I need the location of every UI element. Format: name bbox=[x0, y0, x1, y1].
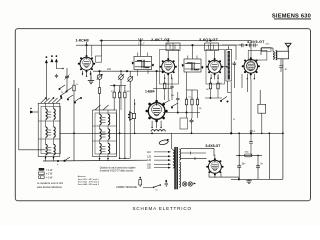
tube table bbox=[78, 175, 100, 186]
svg-text:50: 50 bbox=[98, 75, 100, 77]
detector switch bbox=[163, 78, 178, 108]
volume pot shield bar bbox=[223, 46, 232, 93]
ant coupling cap bbox=[279, 59, 283, 72]
IF screen cap bbox=[170, 78, 173, 95]
AF diode caps bbox=[233, 45, 243, 88]
coupling cap bbox=[190, 118, 194, 133]
dial lamp L1 bbox=[183, 182, 187, 186]
svg-text:10: 10 bbox=[76, 84, 78, 86]
schematic frame bbox=[15, 29, 310, 201]
voltage selector bbox=[147, 151, 152, 170]
ground terminal M bbox=[55, 55, 64, 69]
antenna terminal T bbox=[50, 55, 53, 62]
legend row 3 bbox=[39, 176, 53, 180]
padder wire bbox=[129, 88, 131, 158]
padder trimmer bbox=[127, 71, 133, 88]
band switch contacts bbox=[59, 85, 82, 103]
svg-text:25: 25 bbox=[61, 92, 63, 94]
svg-text:102: 102 bbox=[107, 68, 112, 71]
IF1 lead stubs bbox=[138, 70, 149, 76]
terminal box V4 bbox=[262, 43, 271, 51]
trimmer C osc bbox=[65, 68, 70, 91]
left inner vertical wire bbox=[19, 88, 46, 150]
svg-text:61: 61 bbox=[156, 190, 158, 192]
mains connector bbox=[165, 180, 169, 187]
speaker feed wire bbox=[134, 99, 136, 134]
speaker bbox=[128, 112, 136, 121]
junction node + bbox=[57, 160, 59, 166]
legend row 2 bbox=[39, 172, 53, 176]
left coil bank bbox=[38, 103, 60, 161]
svg-text:1-EB4: 1-EB4 bbox=[145, 90, 155, 94]
IF cathode resistor bbox=[164, 78, 166, 95]
heater wires bbox=[181, 148, 214, 160]
right vertical bus bbox=[282, 64, 284, 179]
power transformer bbox=[173, 147, 181, 189]
mains switch bbox=[143, 184, 161, 191]
resistor R osc bbox=[73, 80, 75, 161]
bus ground bbox=[246, 179, 252, 183]
ground bus y161 bbox=[43, 159, 147, 162]
output tube V4 bbox=[242, 57, 260, 79]
antenna terminal A bbox=[45, 56, 48, 100]
svg-text:220: 220 bbox=[147, 167, 152, 170]
bus junction dots bbox=[73, 132, 284, 134]
IF tube V2 bbox=[160, 51, 177, 80]
IF bypass caps bbox=[176, 92, 179, 113]
coupling box bbox=[180, 118, 188, 129]
svg-text:0.1: 0.1 bbox=[111, 91, 113, 93]
phono terminal arrow bbox=[30, 108, 38, 114]
rectifier output bbox=[209, 174, 240, 181]
value labels bbox=[61, 68, 288, 154]
AF line wire bbox=[153, 88, 172, 90]
title underline bbox=[274, 18, 311, 20]
band switch left bbox=[41, 97, 63, 103]
lamp arrow bbox=[194, 183, 197, 185]
svg-text:SCHEMA ELETTRICO: SCHEMA ELETTRICO bbox=[133, 206, 192, 211]
oscillator coil bank bbox=[93, 110, 117, 161]
det switch bbox=[220, 97, 228, 103]
svg-text:300: 300 bbox=[127, 91, 130, 93]
osc trimmer 2 bbox=[118, 70, 124, 88]
screen bypass bbox=[258, 90, 269, 179]
phono motor bbox=[159, 139, 169, 146]
V1 grid2 wire bbox=[91, 45, 93, 56]
svg-text:125: 125 bbox=[147, 155, 152, 158]
detector tube V3 bbox=[206, 51, 223, 80]
detector R chain bbox=[185, 72, 198, 118]
svg-text:110: 110 bbox=[147, 151, 151, 154]
svg-text:la valvola 3-6Q7-GT dallo zocc: la valvola 3-6Q7-GT dallo zoccolo bbox=[100, 171, 134, 173]
svg-text:160: 160 bbox=[147, 163, 152, 166]
legend row 1 bbox=[39, 168, 53, 172]
antenna bbox=[285, 43, 291, 51]
svg-text:0.1: 0.1 bbox=[220, 83, 222, 85]
dial lamp L2 bbox=[188, 182, 192, 186]
AVC resistor chain bbox=[110, 86, 130, 160]
svg-text:5-6X5-GT: 5-6X5-GT bbox=[206, 144, 222, 148]
bus switch bbox=[64, 157, 70, 162]
transformer feed wires bbox=[172, 133, 173, 150]
bottom bus y179 bbox=[231, 178, 283, 180]
shield box V3 bbox=[206, 50, 225, 85]
IF transformer T2 bbox=[182, 56, 204, 73]
AF choke bbox=[151, 130, 165, 132]
cathode ground V1 bbox=[88, 73, 94, 84]
shield box V2 bbox=[160, 50, 179, 85]
det plate wire bbox=[230, 82, 232, 134]
IF transformer T1 bbox=[132, 53, 154, 70]
svg-text:25: 25 bbox=[233, 119, 235, 121]
top bus wire 4.8.1 bbox=[76, 41, 251, 46]
grid network box V2 bbox=[166, 43, 180, 51]
coupling cap ant bbox=[55, 74, 58, 78]
osc switch bbox=[95, 105, 109, 110]
svg-text:= 1 W: = 1 W bbox=[46, 169, 53, 172]
converter tube V1 bbox=[78, 42, 95, 77]
svg-text:2.11.7: 2.11.7 bbox=[138, 43, 145, 46]
filter cap C2 bbox=[256, 155, 264, 180]
svg-text:= 2 W: = 2 W bbox=[46, 173, 53, 176]
screen feed box V1 bbox=[96, 56, 102, 62]
filter cap C1 bbox=[237, 133, 246, 179]
svg-text:= 3 W: = 3 W bbox=[46, 176, 53, 179]
mixer wire bbox=[93, 70, 165, 110]
svg-text:140: 140 bbox=[147, 159, 152, 162]
output plate wire bbox=[247, 79, 253, 155]
svg-text:200: 200 bbox=[171, 95, 174, 97]
EB4 grid wire bbox=[156, 70, 158, 100]
svg-text:2000: 2000 bbox=[245, 152, 249, 154]
svg-text:1-6CH8: 1-6CH8 bbox=[75, 38, 89, 43]
antenna coil box bbox=[276, 51, 289, 64]
grid caps V4 bbox=[222, 43, 258, 47]
AVC bus wire bbox=[163, 95, 200, 113]
grid network box V3 bbox=[205, 43, 219, 51]
svg-text:salvo diversa indicazione: salvo diversa indicazione bbox=[37, 187, 63, 189]
det cathode resistors bbox=[205, 75, 222, 99]
bus wire y133 bbox=[60, 132, 283, 134]
output coupling coil bbox=[261, 48, 274, 59]
filter resistor bbox=[236, 154, 262, 157]
rectifier tube V5 bbox=[206, 155, 223, 178]
svg-text:3-6Q7-GT: 3-6Q7-GT bbox=[199, 38, 219, 42]
fuse bbox=[139, 177, 142, 187]
output transformer box bbox=[248, 50, 267, 60]
duodiode tube V6 bbox=[145, 100, 167, 128]
svg-text:0.5: 0.5 bbox=[189, 97, 191, 99]
drop wires from top buses bbox=[86, 40, 251, 59]
